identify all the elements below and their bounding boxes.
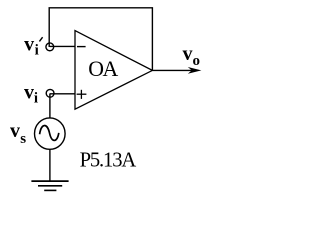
inverting input minus sign [77, 46, 86, 48]
prime tick of vi-prime [39, 37, 42, 41]
svg-text:v: v [183, 43, 193, 65]
terminal node vi-prime [46, 43, 54, 51]
svg-text:i: i [35, 43, 39, 59]
output arrowhead [188, 67, 202, 74]
svg-text:OA: OA [88, 57, 118, 81]
wire feedback loop: node vi-prime up, across top, down to output [49, 8, 152, 71]
svg-text:v: v [10, 120, 20, 142]
wire non-inverting input [50, 93, 75, 95]
svg-text:s: s [20, 131, 26, 147]
svg-text:v: v [24, 34, 34, 56]
wire output [152, 69, 193, 71]
svg-text:i: i [34, 90, 38, 106]
svg-text:o: o [193, 53, 201, 69]
source Vs circle [35, 118, 66, 149]
svg-text:P5.13A: P5.13A [80, 149, 137, 171]
terminal node vi [46, 89, 54, 97]
wire inverting input [50, 45, 75, 47]
wire vi node to source [49, 94, 51, 119]
op-amp U1 triangle [75, 31, 152, 110]
source sine wave [40, 126, 59, 141]
wire source to ground [49, 149, 51, 181]
ground [31, 181, 68, 190]
non-inverting input plus sign [77, 90, 87, 99]
svg-text:v: v [24, 82, 34, 104]
